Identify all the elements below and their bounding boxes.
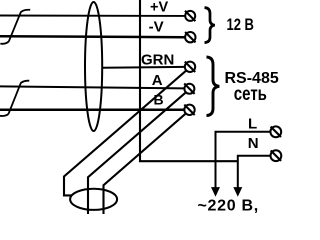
svg-text:сеть: сеть: [234, 82, 267, 104]
arrow to 220V (left): [212, 188, 219, 196]
terminal A: [184, 84, 194, 94]
wire L: [216, 132, 271, 189]
wire B: [0, 108, 184, 111]
cable shield ellipse: [85, 2, 102, 131]
svg-text:A: A: [152, 72, 163, 89]
device edge / bottom wire: [140, 0, 238, 161]
wire -V: [0, 35, 185, 38]
terminal B: [184, 105, 194, 115]
cable entry hole ellipse: [70, 189, 117, 210]
svg-text:+V: +V: [150, 0, 168, 16]
terminal +V: [185, 11, 195, 21]
brace 12V: [205, 8, 215, 43]
wire A daisy-chain diagonal: [88, 92, 186, 214]
wire N: [238, 156, 270, 189]
terminal -V: [185, 32, 195, 42]
svg-text:L: L: [248, 115, 257, 132]
terminal L: [270, 126, 281, 137]
svg-text:~220 В,: ~220 В,: [198, 197, 259, 214]
brace RS-485: [207, 57, 220, 116]
svg-text:-V: -V: [149, 19, 164, 36]
cable break slash (top pair): [0, 10, 30, 44]
wire A: [0, 86, 184, 88]
terminal N: [271, 150, 282, 161]
svg-text:B: B: [154, 91, 164, 107]
wire GRN daisy-chain diagonal: [64, 70, 187, 195]
wire +V: [0, 15, 185, 17]
wire B daisy-chain diagonal: [104, 113, 187, 214]
svg-text:N: N: [248, 135, 259, 152]
cable break slash (lower pair): [0, 81, 29, 116]
terminal GRN: [185, 62, 195, 72]
arrow to 220V (right): [234, 188, 241, 196]
wire GRN: [102, 66, 185, 69]
svg-text:GRN: GRN: [141, 51, 174, 68]
svg-text:12 В: 12 В: [227, 16, 255, 34]
